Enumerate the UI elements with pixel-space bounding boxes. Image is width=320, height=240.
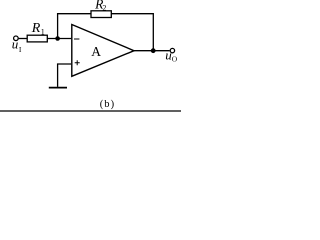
svg-text:R: R bbox=[31, 21, 41, 36]
svg-text:1: 1 bbox=[41, 28, 45, 37]
svg-text:u: u bbox=[12, 36, 19, 51]
svg-text:(b): (b) bbox=[100, 99, 116, 110]
svg-text:A: A bbox=[91, 44, 101, 59]
svg-text:O: O bbox=[172, 55, 178, 64]
svg-text:2: 2 bbox=[102, 4, 106, 13]
